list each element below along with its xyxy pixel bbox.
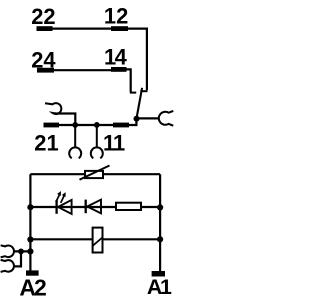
terminal 22 — [37, 26, 53, 31]
svg-text:21: 21 — [34, 130, 58, 155]
svg-text:12: 12 — [104, 4, 128, 29]
right rail — [159, 174, 161, 271]
junction right rail coil row — [157, 236, 163, 242]
wire lower socket — [13, 251, 21, 266]
wire 14 to contact — [127, 69, 131, 92]
resistor box — [116, 203, 141, 210]
top rail (right of varistor) — [103, 173, 160, 175]
junction socket wire — [18, 249, 24, 255]
LED/diode/resistor row wire — [30, 206, 160, 208]
left rail — [29, 174, 31, 270]
relay coil K — [93, 228, 103, 253]
junction left rail coil row — [27, 236, 33, 242]
terminal 21 — [44, 123, 60, 128]
junction right rail row2 — [157, 204, 163, 210]
wire sockets to left rail — [13, 250, 30, 252]
coil row wire — [30, 238, 160, 240]
bridge socket left upper (A2) — [1, 245, 14, 257]
bridge socket above 21 — [45, 103, 61, 114]
LED arrow 2 — [61, 196, 64, 203]
wire 21 to 11 — [59, 124, 113, 126]
bridge socket below wire (right) — [91, 125, 103, 158]
bridge socket below wire (left) — [69, 125, 81, 158]
junction on 21/11 wire (left) — [72, 122, 78, 128]
terminal 11 — [113, 123, 129, 128]
LED arrow 1 — [56, 195, 59, 202]
terminal 12 — [111, 26, 128, 31]
contact lever (common) — [136, 88, 142, 119]
diode triangle — [87, 200, 101, 214]
wire 11 to pivot — [129, 119, 136, 125]
LED triangle — [58, 200, 72, 214]
bridge socket right (11) — [159, 111, 173, 126]
junction on 21/11 wire (right) — [94, 122, 100, 128]
varistor diagonal — [80, 166, 110, 180]
terminal 24 — [37, 68, 54, 73]
svg-text:11: 11 — [103, 130, 125, 155]
top rail (left of varistor) — [30, 173, 85, 175]
contact pivot junction — [134, 116, 140, 122]
wire socket to 21 row — [55, 114, 75, 124]
LED cathode bar — [55, 200, 57, 214]
terminal A2 — [26, 270, 39, 275]
junction left rail socket row — [27, 248, 33, 254]
wire 22 to 12 — [52, 28, 112, 30]
relay coil diagonal — [93, 238, 102, 246]
wire 24 to 14 — [54, 69, 112, 71]
fixed contact 12 (NC) — [140, 90, 147, 92]
svg-text:A1: A1 — [147, 275, 172, 299]
wire 12 to contact — [128, 29, 147, 91]
svg-text:14: 14 — [104, 44, 128, 69]
svg-text:22: 22 — [31, 4, 55, 29]
diode cathode bar — [85, 200, 87, 214]
svg-text:A2: A2 — [19, 274, 46, 300]
varistor box — [85, 171, 103, 178]
terminal A1 — [152, 271, 165, 277]
wire pivot to socket — [137, 117, 160, 119]
terminal 14 — [111, 67, 127, 72]
junction left rail row2 — [27, 204, 33, 210]
bridge socket left lower (A2) — [1, 260, 14, 272]
fixed contact 14 (NO) — [130, 92, 136, 94]
